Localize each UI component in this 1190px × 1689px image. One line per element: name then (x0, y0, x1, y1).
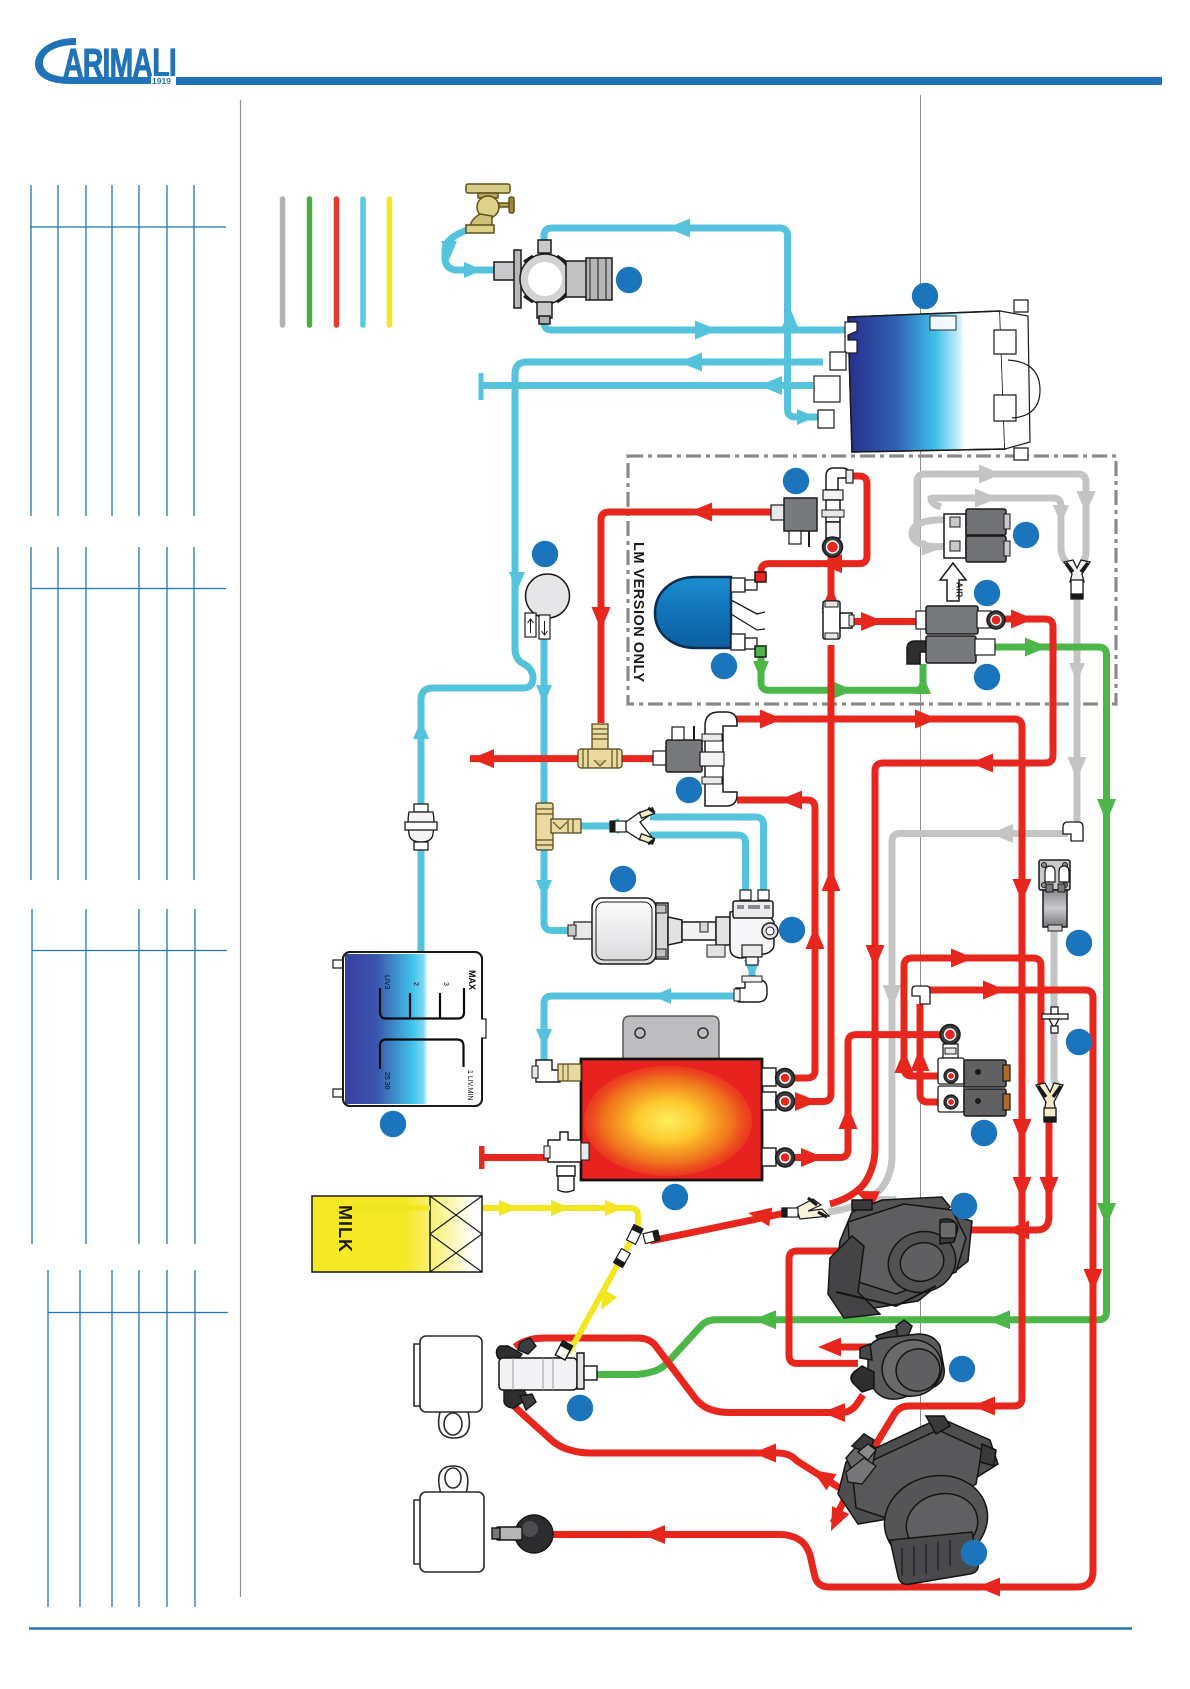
callout dot (711, 653, 737, 679)
wire red manifold bottom to boiler top outlet (737, 800, 815, 1078)
legend line hot water (red) (334, 199, 340, 325)
wire red steam valve2 loop to hot water spout (552, 990, 1093, 1587)
legend line steam (green) (307, 199, 313, 325)
parts table lines group 1 (30, 185, 226, 516)
brass T fitting group line (578, 724, 622, 768)
air pump (1039, 860, 1070, 931)
wire red drain line with open arrow (470, 755, 580, 762)
wire yellow milk suction line (430, 1208, 638, 1353)
svg-text:1 LIV.MIN: 1 LIV.MIN (466, 1070, 473, 1100)
boiler body (581, 1059, 762, 1180)
steam-water solenoid pair (938, 1025, 1010, 1117)
callout dot (971, 1120, 997, 1146)
expansion dome (655, 572, 766, 657)
wire steam dome to steam valve (761, 656, 923, 690)
pump outlet elbow (734, 976, 767, 1002)
callout dot (949, 1356, 975, 1382)
wire red brew unit 2 branch to spout line (833, 1484, 852, 1523)
air check valve (1042, 1007, 1068, 1033)
air line elbow fitting (1063, 822, 1083, 841)
callout dot (783, 468, 809, 494)
legend line milk (yellow) (387, 199, 393, 325)
svg-text:2: 2 (412, 982, 419, 986)
wire red T to group solenoid (620, 755, 656, 762)
level tank (333, 952, 486, 1106)
brass Y steam air mixer (782, 1198, 829, 1219)
air solenoid valves (LM) (944, 509, 1010, 562)
callout dot (380, 1111, 406, 1137)
brew unit 2 left nozzle (846, 1444, 876, 1484)
page divider line right (920, 95, 922, 1586)
air Y mixer (1064, 560, 1090, 599)
callout dot (532, 541, 558, 567)
parts table lines group 2 (31, 547, 226, 880)
wire red frother bottom to brew unit 2 (512, 1404, 884, 1516)
wire red expansion elbow loop to dome inlet (761, 476, 867, 578)
boiler inlet elbow top left (532, 1060, 581, 1082)
Y splitter pump feed (626, 808, 655, 844)
wire red LM riser to LM solenoid (601, 512, 773, 723)
brew unit 1 right fitting (940, 1222, 956, 1238)
CARIMALI logo (35, 38, 176, 86)
callout dot (1066, 1029, 1092, 1055)
wire red milk pump to brew unit 1 milk inlet (789, 1251, 858, 1363)
group solenoid valve (653, 726, 702, 772)
wire air inner loop to Y mixer (931, 498, 1066, 562)
milk frother assembly (496, 1338, 597, 1410)
header blue bar (176, 77, 1162, 85)
boiler drain (557, 1166, 575, 1192)
pump motor and head (568, 890, 778, 965)
callout dot (951, 1193, 977, 1219)
wire cyan pump outlet down (749, 944, 756, 978)
wire cyan inlet valve bottom to tank top port (544, 312, 853, 330)
wire air Y mixer output down to elbow (1074, 594, 1081, 826)
wire air pump to check valve and steam Y (1054, 928, 1057, 1086)
wire cyan Y upper branch to pump head (650, 817, 764, 892)
cleaning canister 2 (414, 1466, 484, 1572)
milk frothing pump (851, 1320, 949, 1403)
cleaning canister 1 (414, 1336, 482, 1438)
milk mixer Y connector (614, 1225, 660, 1268)
page divider line left (240, 100, 242, 1597)
legend line air (grey) (280, 199, 286, 325)
hose joiner (610, 821, 626, 832)
wire cyan tap to inlet valve (445, 227, 497, 270)
wire red steam valve1 loop to steam Y (904, 958, 1041, 1086)
expansion valve assembly (822, 468, 853, 557)
milk carton (312, 1196, 482, 1272)
wire cyan Y lower branch to pump head (650, 835, 746, 892)
svg-text:25 30: 25 30 (383, 1072, 390, 1090)
wire red brass Y output to milk mixer Y (650, 1212, 790, 1241)
callout dot (974, 580, 1000, 606)
wire red manifold top to brew unit 2 (736, 719, 1022, 1477)
wire red boiler mid outlet to dome T (792, 645, 831, 1102)
callout dot (676, 777, 702, 803)
steam air Y connector (1036, 1083, 1063, 1122)
callout dot (912, 283, 938, 309)
boiler right fitting 1 (762, 1068, 795, 1088)
wire cyan air-break down pipe (541, 638, 548, 804)
hot water spout (492, 1515, 553, 1553)
wire air elbow to brass Y (828, 834, 1068, 1213)
callout dot (1013, 522, 1039, 548)
callout dot (1066, 930, 1092, 956)
boiler bracket (623, 1016, 719, 1059)
boiler left service valve (544, 1132, 589, 1162)
svg-text:MILK: MILK (335, 1205, 355, 1253)
air break reservoir (525, 574, 570, 639)
dome T fitting (823, 601, 854, 639)
wire cyan capped line to tank port (483, 382, 813, 389)
callout dot (662, 1184, 688, 1210)
legend line cold water (cyan) (360, 199, 366, 325)
boiler right fitting 3 (762, 1148, 795, 1167)
wire red hot water valve to brass Y (830, 619, 1053, 1204)
callout dot (567, 1395, 593, 1421)
wire red milk pump top outlet open arrow (826, 1344, 897, 1351)
callout dot (961, 1540, 987, 1566)
bottom blue rule (29, 1627, 1132, 1629)
boiler right fitting 2 (762, 1092, 795, 1111)
svg-text:3: 3 (442, 982, 449, 986)
wire cyan pump return to boiler inlet (544, 996, 740, 1060)
LM VERSION ONLY dashed box (628, 456, 1116, 704)
wire cyan inlet valve top loop to tank bottom port (544, 228, 821, 417)
hot water loop elbow (912, 986, 930, 1004)
water filter (405, 804, 437, 850)
parts table lines group 4 (48, 1270, 228, 1607)
wire cyan T to pump inlet (544, 848, 576, 931)
water mains tap (466, 184, 514, 233)
wire air arc between air valves (912, 520, 945, 547)
svg-text:1919: 1919 (152, 76, 171, 86)
brew unit 2 (838, 1416, 998, 1584)
parts table lines group 3 (32, 909, 227, 1244)
callout dot (779, 917, 805, 943)
svg-text:LM VERSION ONLY: LM VERSION ONLY (630, 542, 646, 683)
wire red dome T to hot water valve (841, 618, 922, 625)
inlet solenoid valve (494, 240, 612, 324)
brass T fitting pump feed (536, 803, 581, 850)
svg-text:AIR: AIR (955, 582, 965, 598)
svg-text:LIV3: LIV3 (383, 975, 390, 990)
group manifold (700, 712, 737, 806)
brew unit 1 (828, 1197, 972, 1318)
wire steam valve to frother (596, 647, 1107, 1375)
callout dot (610, 866, 636, 892)
wire red expansion valve to dome T riser (828, 556, 835, 600)
callout dot (974, 664, 1000, 690)
steam solenoid valve (907, 636, 995, 664)
callout dot (616, 267, 642, 293)
wire air outer loop to Y mixer (917, 474, 1086, 566)
wire red steam Y down to brew unit 1 (950, 1120, 1049, 1230)
wire cyan T branch to Y splitter (554, 823, 614, 830)
wire red boiler steam outlet to steam valves (792, 1035, 941, 1158)
hot water solenoid valve (916, 606, 1005, 634)
wire cyan tank mid port to air-break overflow (421, 362, 823, 954)
water tank (814, 300, 1040, 460)
wire red frother top to milk pump line (515, 1338, 863, 1413)
wire red boiler left capped line (484, 1154, 554, 1161)
AIR arrow symbol (940, 563, 966, 601)
svg-text:MAX: MAX (467, 970, 477, 990)
LM brew solenoid valve (771, 498, 817, 547)
